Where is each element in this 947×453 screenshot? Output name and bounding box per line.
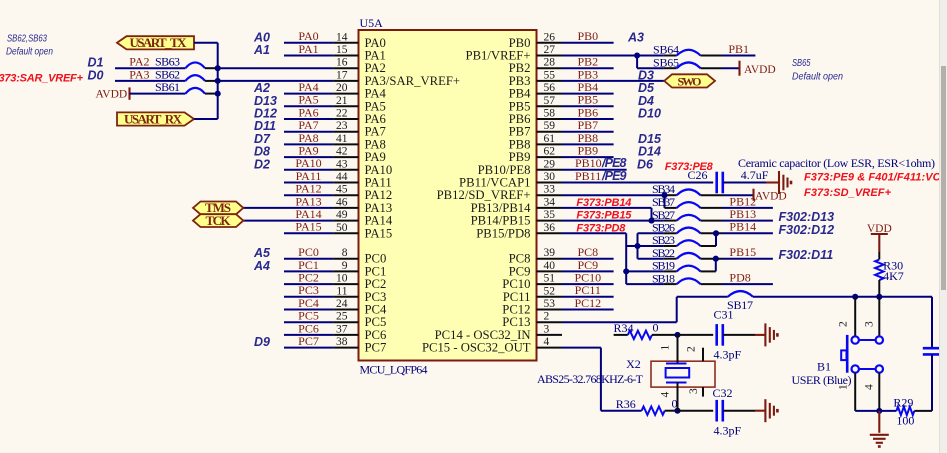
pin 38 PC7 (left)	[333, 336, 386, 355]
svg-text:AVDD: AVDD	[744, 64, 776, 76]
pin 24 PC4 (left)	[333, 298, 387, 317]
pin 50 PA15 (left)	[333, 222, 392, 241]
wire net PB13	[722, 220, 773, 222]
capacitor C26	[688, 168, 723, 193]
pin 45 PA12 (left)	[333, 184, 392, 203]
svg-text:50: 50	[336, 222, 348, 234]
wire net PA7	[284, 131, 333, 133]
note F302:D11	[779, 248, 834, 262]
pin 62 PB9 (right)	[509, 146, 562, 165]
wire PA2 row left	[115, 67, 185, 69]
node D11	[254, 119, 276, 133]
svg-text:SB65: SB65	[653, 55, 679, 69]
svg-text:42: 42	[336, 146, 348, 158]
pin 11 PC3 (left)	[333, 285, 386, 304]
wire PB1 row	[562, 55, 677, 57]
pin 15 PA1 (left)	[333, 44, 386, 63]
svg-text:39: 39	[544, 247, 556, 259]
pin 3 B1	[864, 321, 876, 327]
wire SB23 row	[626, 245, 677, 247]
wire USART_RX	[194, 118, 218, 120]
node D12	[254, 107, 277, 121]
node D2	[254, 157, 270, 171]
solder bridge SB34	[652, 182, 723, 196]
wire net PC4	[284, 309, 333, 311]
node D15	[638, 132, 662, 146]
resistor R34	[614, 320, 678, 339]
net label PC1	[298, 258, 319, 272]
svg-text:9: 9	[342, 260, 348, 272]
net label PC11	[575, 283, 601, 297]
svg-text:40: 40	[544, 260, 556, 272]
net label PB6	[577, 105, 598, 119]
svg-text:4: 4	[864, 384, 876, 390]
wire PC15 down	[562, 348, 642, 411]
pin 23 PA7 (left)	[333, 120, 386, 139]
wire PA3 row left	[115, 80, 185, 82]
svg-text:PA15: PA15	[295, 220, 321, 234]
junction R34 C31 crystal	[674, 332, 680, 338]
note F302:D12	[779, 223, 835, 237]
designator U5A	[360, 16, 384, 30]
svg-text:34: 34	[544, 196, 556, 208]
svg-text:16: 16	[336, 57, 348, 69]
transistor B1 user button	[841, 297, 883, 411]
note F373:SAR_VREF+ (clipped)	[0, 73, 84, 85]
junction PB1	[634, 52, 640, 58]
svg-text:1: 1	[838, 384, 850, 390]
pin 61 PB8 (right)	[509, 133, 562, 152]
pin 44 PA11 (left)	[333, 171, 392, 190]
wire net PC8	[562, 258, 614, 260]
pin 1 X2	[660, 345, 672, 351]
svg-text:MCU_LQFP64: MCU_LQFP64	[360, 363, 428, 377]
pin 14 PA0 (left)	[333, 31, 386, 50]
capacitor C32	[678, 386, 742, 438]
svg-text:41: 41	[336, 133, 348, 145]
node A1	[253, 43, 270, 57]
svg-text:36: 36	[544, 222, 556, 234]
svg-text:30: 30	[544, 171, 556, 183]
svg-text:58: 58	[544, 108, 556, 120]
junction PB14 to SB23	[713, 230, 719, 246]
pin 9 PC1 (left)	[333, 260, 386, 279]
svg-text:55: 55	[544, 69, 556, 81]
node A5	[253, 246, 271, 260]
capacitor C31	[678, 308, 742, 362]
net label PC7	[298, 334, 319, 348]
node D5	[638, 81, 655, 95]
pin 40 PC9 (right)	[509, 260, 562, 279]
note F373:PE9 F401/F411:VCAP (clipped)	[804, 172, 947, 184]
wire net PC7	[284, 347, 333, 349]
solder bridge SB64	[653, 43, 722, 57]
pin 25 PC5 (left)	[333, 311, 386, 330]
net label PA11	[296, 169, 322, 183]
svg-text:PB1: PB1	[728, 42, 749, 56]
pin 26 PB0 (right)	[509, 31, 562, 50]
pin 22 PA6 (left)	[333, 108, 386, 127]
scrollbar track	[939, 0, 947, 453]
svg-text:C26: C26	[688, 168, 708, 182]
net label PB1	[728, 42, 749, 56]
net label PB4	[577, 80, 598, 94]
svg-text:4: 4	[544, 336, 550, 348]
pin 42 PA9 (left)	[333, 146, 386, 165]
svg-text:Ceramic capacitor (Low ESR, ES: Ceramic capacitor (Low ESR, ESR<1ohm)	[738, 156, 935, 170]
net label PB10/PE8	[575, 156, 627, 170]
note F373:PB14	[576, 197, 631, 209]
wire net PC3	[284, 296, 333, 298]
svg-text:20: 20	[336, 82, 348, 94]
pin 4 B1	[864, 384, 876, 390]
svg-text:F373:SAR_VREF+: F373:SAR_VREF+	[0, 73, 84, 85]
svg-text:27: 27	[544, 44, 556, 56]
op-amp U5A MCU_LQFP64 body	[359, 30, 537, 361]
pin 46 PA13 (left)	[333, 196, 392, 215]
svg-text:56: 56	[544, 82, 556, 94]
net label PA5	[298, 93, 318, 107]
node A0	[253, 30, 270, 44]
wire net PB8	[562, 143, 614, 145]
svg-text:100: 100	[896, 414, 914, 428]
wire net PA4	[284, 93, 333, 95]
svg-text:D9: D9	[254, 335, 270, 349]
svg-text:PB15/PD8: PB15/PD8	[476, 226, 530, 240]
svg-text:PC12: PC12	[574, 296, 601, 310]
svg-text:4: 4	[660, 392, 672, 398]
svg-text:R29: R29	[893, 396, 913, 410]
net label PB12	[729, 194, 756, 208]
note F302:D13	[779, 210, 835, 224]
net label PB5	[577, 93, 598, 107]
wire net PA6	[284, 118, 333, 120]
ground C26	[779, 171, 791, 194]
svg-text:PC7: PC7	[365, 341, 387, 355]
wire C32 to ground	[723, 410, 765, 412]
wire SB19 row	[626, 270, 677, 272]
net label PC8	[577, 245, 598, 259]
net label PA13	[295, 194, 321, 208]
net label PB11/PE9	[575, 169, 627, 183]
junction ground B1	[876, 408, 882, 414]
svg-text:PC15 - OSC32_OUT: PC15 - OSC32_OUT	[422, 341, 531, 355]
svg-text:10: 10	[336, 273, 348, 285]
svg-text:33: 33	[544, 184, 556, 196]
wire net PB2	[562, 67, 614, 69]
svg-text:4K7: 4K7	[883, 269, 904, 283]
svg-text:4.3pF: 4.3pF	[714, 424, 742, 438]
node D13	[254, 94, 277, 108]
solder bridge SB27	[652, 208, 722, 222]
node D8	[254, 145, 270, 159]
net label PB15	[729, 245, 756, 259]
svg-text:28: 28	[544, 57, 556, 69]
pin 3 PC14 - OSC32_IN (right)	[435, 323, 562, 342]
pin 30 PB11/VCAP1 (right)	[459, 171, 562, 190]
wire SB34 to AVDD	[723, 194, 753, 196]
note SB65 default open	[792, 58, 843, 83]
wire net PA15	[284, 232, 333, 234]
wire net PC1	[284, 270, 333, 272]
wire SB23 to SB22	[638, 246, 677, 259]
svg-text:46: 46	[336, 196, 348, 208]
wire net PB6	[562, 118, 614, 120]
svg-text:59: 59	[544, 120, 556, 132]
pin 43 PA10 (left)	[333, 158, 392, 177]
svg-text:PC7: PC7	[298, 334, 319, 348]
part name MCU_LQFP64	[360, 363, 428, 377]
svg-text:PA15: PA15	[365, 226, 393, 240]
svg-text:AVDD: AVDD	[755, 191, 787, 203]
wire net PA8	[284, 143, 333, 145]
svg-text:PB15: PB15	[729, 245, 756, 259]
note F373:SD_VREF+	[804, 187, 892, 199]
solder bridge SB22	[652, 246, 722, 260]
svg-text:49: 49	[336, 209, 348, 221]
pin 37 PC6 (left)	[333, 323, 386, 342]
net label PB13	[729, 207, 756, 221]
pin 2 PC13 (right)	[502, 311, 562, 330]
pin 41 PA8 (left)	[333, 133, 386, 152]
svg-text:SB65: SB65	[792, 58, 811, 69]
wire net PA9	[284, 156, 333, 158]
solder bridge SB65	[653, 55, 722, 69]
svg-text:45: 45	[336, 184, 348, 196]
net label PD8	[729, 271, 750, 285]
pin 33 PB12/SD_VREF+ (right)	[437, 184, 562, 203]
node D4	[638, 94, 654, 108]
junction SB62	[215, 78, 221, 84]
port USART_RX	[117, 111, 194, 126]
net label PC12	[574, 296, 601, 310]
solder bridge SB23	[652, 233, 716, 247]
node D0	[88, 68, 104, 82]
wire net PB7	[562, 131, 614, 133]
wire net PC11	[562, 296, 614, 298]
wire net PB0	[562, 42, 614, 44]
net label PA0	[298, 29, 318, 43]
junction R30 button right	[876, 294, 882, 300]
pin 8 PC0 (left)	[333, 247, 386, 266]
wire net PB4	[562, 93, 614, 95]
net label PB8	[577, 131, 598, 145]
svg-text:SB18: SB18	[652, 271, 675, 285]
wire USART vertical	[217, 43, 219, 119]
svg-text:/PE9: /PE9	[601, 169, 627, 183]
node D3	[638, 68, 654, 82]
net label PB2	[577, 55, 598, 69]
svg-text:SB62,SB63: SB62,SB63	[7, 34, 47, 45]
net label PA9	[298, 144, 318, 158]
wire button bottom	[855, 410, 896, 412]
svg-text:35: 35	[544, 209, 556, 221]
wire net PA0	[284, 42, 333, 44]
net label PA1	[298, 42, 318, 56]
net label SB61	[155, 80, 180, 94]
node D9	[254, 335, 270, 349]
net label PA8	[298, 131, 318, 145]
svg-text:R36: R36	[616, 397, 636, 411]
wire net PB12	[722, 207, 773, 209]
net label PA15	[295, 220, 321, 234]
wire TCK to PA14	[243, 220, 333, 222]
ground C32	[765, 399, 777, 422]
junction pin35	[648, 218, 654, 224]
net label PC4	[298, 296, 319, 310]
svg-text:37: 37	[336, 323, 348, 335]
designator B1	[817, 360, 831, 374]
svg-text:21: 21	[336, 95, 348, 107]
solder bridge SB61	[185, 88, 217, 94]
net label PC5	[298, 309, 319, 323]
wire SB18 row	[626, 283, 677, 285]
net label PC2	[298, 271, 319, 285]
svg-text:A3: A3	[627, 30, 644, 44]
wire USART_TX	[194, 42, 218, 44]
wire C31 to ground	[723, 334, 765, 336]
svg-text:PA3: PA3	[129, 67, 149, 81]
svg-text:15: 15	[336, 44, 348, 56]
junction SB61	[215, 91, 221, 97]
junction PB15 to SB19	[713, 256, 719, 272]
net label PC10	[574, 271, 601, 285]
wire net PB9	[562, 156, 614, 158]
net label PA4	[298, 80, 318, 94]
note ceramic capacitor	[738, 156, 935, 170]
resistor R29	[893, 396, 932, 428]
wire PB3 to SWO	[562, 80, 664, 82]
wire net PB1	[722, 55, 755, 57]
svg-text:57: 57	[544, 95, 556, 107]
pin 20 PA4 (left)	[333, 82, 386, 101]
resistor R30	[875, 252, 904, 297]
port TMS	[193, 200, 243, 215]
svg-text:38: 38	[336, 336, 348, 348]
svg-text:Default open: Default open	[6, 47, 53, 58]
node D1	[88, 56, 104, 70]
wire net PA10	[284, 169, 333, 171]
svg-text:C31: C31	[714, 308, 734, 322]
svg-text:PB11: PB11	[575, 169, 601, 183]
pin 52 PC11 (right)	[503, 285, 562, 304]
svg-text:24: 24	[336, 298, 348, 310]
junction button left	[852, 294, 858, 300]
svg-text:1: 1	[660, 345, 672, 351]
note F373:PD8	[576, 222, 626, 234]
pin 59 PB7 (right)	[509, 120, 562, 139]
wire net PC10	[562, 283, 614, 285]
junction pin36 SB19	[623, 268, 629, 274]
wire PA3 to chip	[218, 80, 333, 82]
wire net PA1	[284, 55, 333, 57]
wire PC13 to SB17	[562, 297, 728, 322]
value ABS25-32.768KHZ-6-T	[537, 372, 644, 386]
svg-text:A1: A1	[253, 43, 270, 57]
svg-text:51: 51	[544, 273, 556, 285]
svg-text:61: 61	[544, 133, 556, 145]
net label PB14	[729, 220, 756, 234]
svg-text:F373:SD_VREF+: F373:SD_VREF+	[804, 187, 892, 199]
wire C26 to ground	[723, 182, 779, 184]
pin 1 B1	[838, 384, 850, 390]
node A3	[627, 30, 644, 44]
wire net PA5	[284, 105, 333, 107]
pin 57 PB5 (right)	[509, 95, 562, 114]
svg-text:44: 44	[336, 171, 348, 183]
svg-text:F373:PB15: F373:PB15	[576, 210, 632, 222]
wire SB65 to AVDD	[722, 67, 739, 69]
net label PB9	[577, 144, 598, 158]
note SB62,SB63 default open	[6, 34, 53, 58]
svg-text:8: 8	[342, 247, 348, 259]
junction SB63	[215, 65, 221, 71]
pin 17 PA3/SAR_VREF+ (left)	[333, 69, 460, 88]
svg-text:USART_RX: USART_RX	[124, 111, 183, 126]
solder bridge SB19	[652, 259, 716, 273]
svg-text:D0: D0	[88, 68, 104, 82]
solder bridge SB17	[727, 291, 753, 312]
svg-text:26: 26	[544, 31, 556, 43]
net label PA12	[295, 182, 321, 196]
pin 51 PC10 (right)	[502, 273, 562, 292]
port TCK	[193, 213, 243, 228]
note F373:PB15	[576, 210, 632, 222]
pin 55 PB3 (right)	[509, 69, 562, 88]
power port AVDD left	[95, 87, 129, 100]
svg-text:62: 62	[544, 146, 556, 158]
net label PA7	[298, 118, 318, 132]
wire net PB15	[722, 258, 773, 260]
pin 21 PA5 (left)	[333, 95, 386, 114]
solder bridge SB18	[652, 271, 722, 285]
junction SB23	[634, 243, 640, 249]
svg-text:PA1: PA1	[298, 42, 318, 56]
pin 53 PC12 (right)	[502, 298, 562, 317]
svg-text:11: 11	[336, 285, 347, 297]
net label PB3	[577, 67, 598, 81]
svg-text:AVDD: AVDD	[95, 89, 127, 101]
wire SB17 to button	[753, 296, 932, 298]
ground B1 R29	[870, 411, 889, 447]
resistor R36	[616, 397, 678, 415]
wire pin36 down	[562, 233, 626, 284]
svg-text:3: 3	[864, 321, 876, 327]
wire net PD8	[722, 283, 773, 285]
node A2	[253, 81, 270, 95]
scrollbar thumb	[941, 66, 946, 290]
net label PB0	[577, 29, 598, 43]
pin 36 PB15/PD8 (right)	[476, 222, 562, 241]
svg-text:PB0: PB0	[577, 29, 598, 43]
pin 28 PB2 (right)	[509, 57, 562, 76]
svg-text:X2: X2	[626, 357, 641, 371]
solder bridge SB63	[185, 62, 217, 68]
value 4.7uF	[741, 168, 769, 182]
pin 4 PC15 - OSC32_OUT (right)	[422, 336, 562, 355]
net label PA10	[295, 156, 321, 170]
pin 27 PB1/VREF+ (right)	[466, 44, 562, 63]
svg-text:R34: R34	[614, 321, 634, 335]
capacitor C right	[923, 297, 942, 411]
svg-text:A4: A4	[253, 259, 270, 273]
wire net PB10/PE8	[562, 169, 627, 171]
net label PA6	[298, 105, 318, 119]
solder bridge SB62	[185, 75, 217, 81]
solder bridge SB26	[652, 221, 722, 235]
svg-text:U5A: U5A	[360, 16, 384, 30]
svg-text:14: 14	[336, 31, 348, 43]
